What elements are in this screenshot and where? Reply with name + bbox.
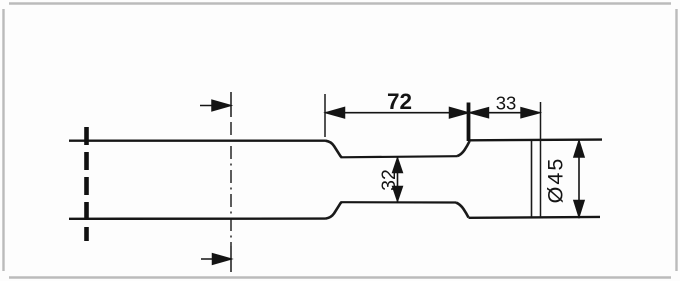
outline: shaft top edge left segment	[69, 139, 326, 141]
dim diameter 45: top arrowhead	[574, 141, 584, 157]
faint page edge line bottom	[9, 276, 671, 278]
outline: top-right fillet out of neck	[457, 141, 470, 156]
dim 72: dimension line	[326, 112, 469, 114]
dim 72: shared thick extension line	[467, 103, 471, 142]
outline: shaft bottom edge right segment	[469, 216, 601, 219]
outline: bottom-right fillet out of neck	[456, 203, 469, 218]
outline: neck top edge	[341, 156, 458, 157]
svg-text:32: 32	[378, 169, 400, 191]
datum arrow top: tail	[200, 105, 228, 107]
collar face line right / extension line for 33	[540, 102, 542, 217]
dim 33: dimension line	[469, 112, 540, 114]
faint page edge line top	[9, 2, 671, 4]
break line (thick dashed) at left end	[84, 127, 89, 241]
svg-text:Ø45: Ø45	[544, 157, 568, 204]
dim 72: right arrowhead	[450, 108, 469, 118]
dim 72: left extension line	[324, 94, 326, 137]
centerline bottom solid segment	[230, 246, 232, 272]
datum arrow top: head	[212, 100, 231, 111]
outline: shaft bottom edge left segment	[69, 217, 326, 220]
dim 33: right arrowhead	[521, 108, 540, 118]
outline: top-left fillet into neck	[326, 141, 342, 158]
collar face line left	[531, 141, 533, 217]
dim diameter 45: dimension line	[578, 141, 580, 217]
datum arrow bottom: head	[213, 254, 232, 265]
centerline top solid segment	[230, 92, 232, 117]
dim diameter 45: bottom arrowhead	[574, 201, 584, 217]
centerline dash-dot middle	[230, 122, 232, 246]
faint page edge line right	[675, 9, 677, 271]
outline: shaft top edge right segment	[470, 138, 603, 141]
svg-text:33: 33	[496, 93, 517, 114]
outline: neck bottom edge	[341, 201, 457, 204]
dim 32: top arrowhead	[393, 158, 403, 173]
dim 32: dimension line	[397, 158, 399, 202]
dim 33: left arrowhead	[470, 108, 489, 118]
datum arrow bottom: tail	[201, 258, 228, 260]
outline: bottom-left fillet into neck	[326, 202, 342, 218]
faint page edge line left	[2, 9, 4, 271]
dim 32: bottom arrowhead	[393, 187, 403, 202]
svg-text:72: 72	[387, 89, 412, 114]
dim 72: left arrowhead	[326, 108, 345, 118]
